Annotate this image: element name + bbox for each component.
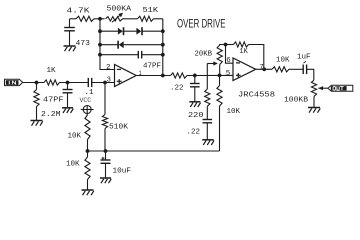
svg-text:10K: 10K bbox=[68, 133, 82, 141]
svg-text:.1: .1 bbox=[85, 89, 95, 97]
svg-text:JRC4558: JRC4558 bbox=[238, 92, 275, 100]
svg-text:7: 7 bbox=[259, 64, 264, 72]
svg-text:100KB: 100KB bbox=[284, 97, 309, 105]
svg-text:10K: 10K bbox=[276, 57, 290, 65]
svg-text:1uF: 1uF bbox=[297, 53, 311, 61]
svg-text:10K: 10K bbox=[227, 108, 241, 116]
svg-text:47PF: 47PF bbox=[43, 96, 64, 104]
svg-text:10K: 10K bbox=[66, 161, 80, 169]
svg-text:220: 220 bbox=[188, 112, 204, 120]
svg-text:3: 3 bbox=[107, 77, 112, 85]
svg-text:VCC: VCC bbox=[80, 97, 92, 104]
svg-text:2.2M: 2.2M bbox=[41, 111, 61, 119]
svg-text:473: 473 bbox=[76, 40, 91, 48]
svg-text:51K: 51K bbox=[143, 7, 159, 15]
svg-text:.22: .22 bbox=[170, 85, 184, 93]
svg-text:20KB: 20KB bbox=[195, 51, 213, 59]
svg-text:1K: 1K bbox=[239, 48, 248, 56]
svg-text:.22: .22 bbox=[187, 129, 201, 137]
svg-text:510K: 510K bbox=[109, 124, 129, 132]
svg-text:500KA: 500KA bbox=[107, 5, 132, 13]
svg-text:OVER DRIVE: OVER DRIVE bbox=[177, 17, 226, 31]
svg-text:10uF: 10uF bbox=[113, 168, 132, 176]
svg-text:6: 6 bbox=[226, 57, 231, 65]
svg-text:5: 5 bbox=[226, 70, 231, 78]
svg-text:4.7K: 4.7K bbox=[67, 8, 91, 16]
svg-text:1: 1 bbox=[139, 70, 142, 77]
svg-text:47PF: 47PF bbox=[143, 63, 161, 71]
svg-text:1K: 1K bbox=[47, 67, 57, 75]
svg-text:2: 2 bbox=[106, 64, 111, 72]
